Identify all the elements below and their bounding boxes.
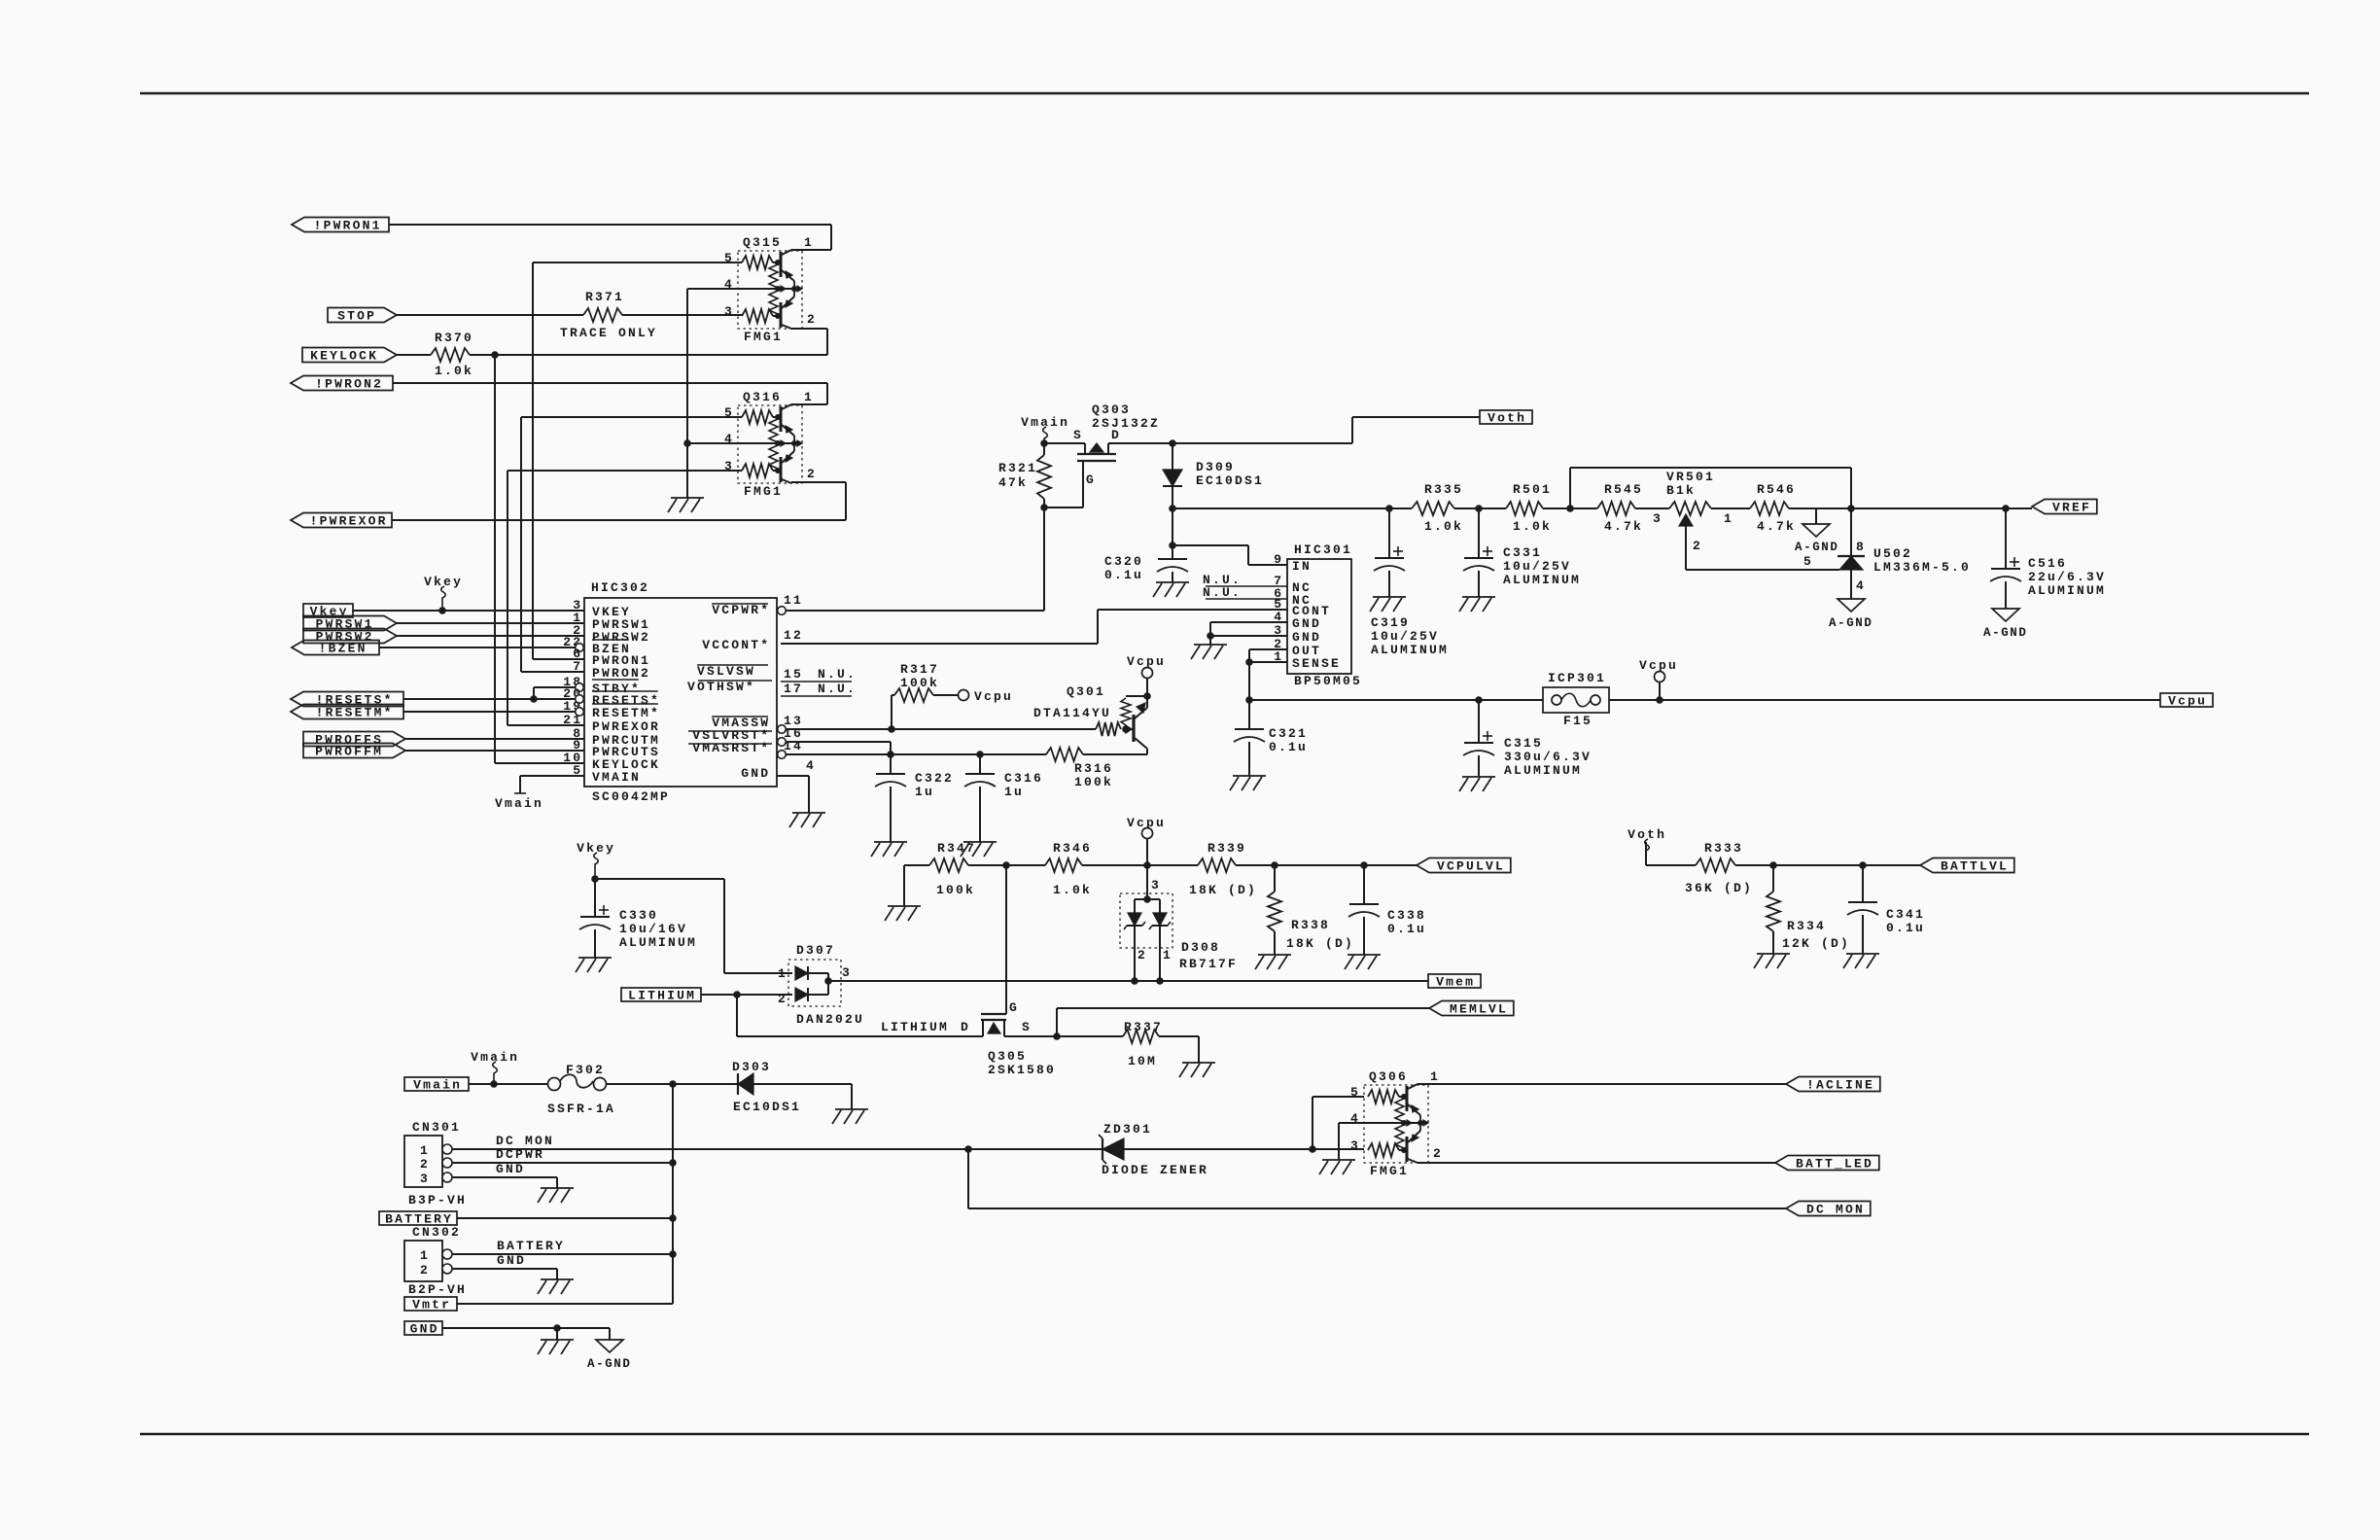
- svg-text:BATTLVL: BATTLVL: [1941, 859, 2009, 874]
- wire Vcpu rail: [1249, 696, 1543, 704]
- svg-text:PWREXOR: PWREXOR: [592, 719, 660, 734]
- diode D309 EC10DS1: [1163, 443, 1264, 508]
- power Vcpu at R346: [1127, 816, 1166, 869]
- svg-text:KEYLOCK: KEYLOCK: [310, 349, 378, 364]
- wire Q316 pin5 to PWRON2 vertical: [521, 417, 742, 672]
- net !PWRON1: [292, 218, 389, 233]
- svg-text:EC10DS1: EC10DS1: [733, 1100, 801, 1114]
- wire ZD301 to Q306 pin5: [1312, 1097, 1364, 1149]
- transistor Q303 2SJ132Z: [1073, 402, 1160, 507]
- svg-text:36K (D): 36K (D): [1685, 881, 1753, 895]
- net BATTLVL: [1920, 858, 2014, 874]
- svg-text:2SJ132Z: 2SJ132Z: [1092, 416, 1160, 431]
- ground R347: [885, 906, 921, 921]
- wire PWRSW1 to pin1: [397, 622, 584, 624]
- fuse F302 SSFR-1A: [547, 1063, 615, 1116]
- resistor R347: [904, 841, 1006, 906]
- svg-text:1u: 1u: [1004, 785, 1024, 799]
- ground C330: [576, 958, 612, 972]
- svg-text:B3P-VH: B3P-VH: [408, 1193, 467, 1207]
- wire Q315 pin4 to Q316 pin4: [687, 289, 738, 443]
- wire CN302 pin1 BATTERY: [452, 1239, 677, 1258]
- svg-text:R546: R546: [1757, 482, 1796, 497]
- svg-text:N.U.: N.U.: [818, 682, 857, 696]
- wire BATTERY to bus: [457, 1214, 677, 1222]
- wire Q303 D to D309: [1108, 439, 1176, 447]
- A-GND U502: [1829, 599, 1873, 630]
- diode D303 EC10DS1: [732, 1060, 852, 1114]
- net !RESETS*: [291, 692, 403, 708]
- A-GND C516: [1983, 609, 2028, 640]
- svg-text:STOP: STOP: [337, 309, 376, 324]
- svg-text:2SK1580: 2SK1580: [988, 1063, 1056, 1077]
- svg-text:3: 3: [1151, 878, 1161, 892]
- capacitor C316: [964, 754, 1043, 842]
- reference U502 LM336M-5.0: [1686, 508, 1971, 599]
- ground HIC301 GND: [1191, 645, 1227, 659]
- svg-text:Vcpu: Vcpu: [1127, 654, 1166, 669]
- net Vmem: [1428, 974, 1481, 990]
- svg-text:LITHIUM: LITHIUM: [628, 989, 696, 1003]
- svg-text:D309: D309: [1196, 460, 1235, 474]
- net KEYLOCK: [302, 348, 397, 364]
- svg-text:10u/16V: 10u/16V: [619, 922, 687, 936]
- label LITHIUM D: [881, 1020, 970, 1034]
- wire PWROFFM to pin9: [405, 750, 584, 752]
- wire KEYLOCK to R370: [397, 354, 431, 356]
- wire VR501 bypass top: [1570, 468, 1851, 508]
- svg-text:VOTHSW*: VOTHSW*: [687, 680, 755, 694]
- wire VMASRST* pin14: [786, 751, 1046, 758]
- svg-text:SC0042MP: SC0042MP: [592, 789, 670, 804]
- svg-text:N.U.: N.U.: [1203, 585, 1242, 600]
- capacitor C330: [579, 879, 697, 958]
- svg-text:18K (D): 18K (D): [1189, 883, 1257, 897]
- wire R333 to C341: [1773, 861, 1867, 869]
- resistor R334: [1767, 865, 1850, 954]
- svg-text:Vmtr: Vmtr: [412, 1298, 451, 1312]
- ground C321: [1230, 776, 1266, 790]
- svg-text:C341: C341: [1886, 907, 1925, 922]
- transistor Q315 (FMG1): [724, 235, 817, 344]
- wire Vmain bus vertical: [672, 1084, 674, 1304]
- svg-text:4: 4: [806, 758, 816, 773]
- wire HIC301 GND pins: [1207, 622, 1287, 645]
- svg-text:GND: GND: [496, 1162, 525, 1176]
- svg-text:3: 3: [724, 304, 734, 319]
- svg-text:S: S: [1022, 1020, 1032, 1034]
- svg-text:1.0k: 1.0k: [1513, 519, 1552, 534]
- ground GND net: [538, 1340, 574, 1354]
- svg-text:1: 1: [420, 1143, 430, 1158]
- svg-text:GND: GND: [1292, 616, 1321, 631]
- IC HIC302 left pin labels: [563, 598, 660, 785]
- svg-text:VR501: VR501: [1666, 470, 1715, 484]
- wire Q316 pin4 junction: [683, 439, 738, 498]
- ground C322: [871, 842, 907, 857]
- net PWRSW1: [303, 616, 397, 632]
- svg-text:D303: D303: [732, 1060, 771, 1074]
- net PWROFFM: [303, 744, 405, 759]
- svg-text:3: 3: [842, 965, 852, 980]
- capacitor C338: [1348, 865, 1426, 955]
- IC HIC302 right pin labels: [687, 593, 857, 781]
- svg-text:!ACLINE: !ACLINE: [1806, 1078, 1874, 1093]
- capacitor C516: [1990, 508, 2106, 609]
- wire HIC301 OUT: [1249, 648, 1287, 650]
- svg-text:F15: F15: [1563, 714, 1592, 728]
- svg-text:R371: R371: [585, 290, 624, 304]
- svg-text:0.1u: 0.1u: [1886, 921, 1925, 935]
- wire VSLVRST* pin16: [786, 742, 891, 754]
- wire Voth rail: [1172, 505, 1412, 512]
- transistor Q305 2SK1580: [981, 865, 1056, 1077]
- svg-text:C320: C320: [1104, 554, 1143, 569]
- capacitor C321: [1234, 726, 1308, 776]
- svg-text:HIC302: HIC302: [591, 580, 649, 595]
- svg-text:FMG1: FMG1: [744, 484, 783, 499]
- svg-text:FMG1: FMG1: [744, 330, 783, 344]
- node R321/gate junction: [1040, 504, 1083, 511]
- svg-text:R338: R338: [1291, 918, 1330, 932]
- net BATT_LED: [1775, 1156, 1879, 1172]
- svg-text:100k: 100k: [900, 676, 939, 690]
- ground R338: [1255, 955, 1291, 969]
- net BATTERY: [379, 1211, 457, 1227]
- ground R334: [1754, 954, 1790, 968]
- svg-text:DAN202U: DAN202U: [796, 1012, 864, 1027]
- svg-text:LM336M-5.0: LM336M-5.0: [1873, 560, 1971, 575]
- svg-text:R333: R333: [1704, 841, 1743, 856]
- svg-text:11: 11: [784, 593, 803, 608]
- wire !PWREXOR to Q316 pin2: [392, 482, 846, 520]
- ground C316: [961, 842, 997, 857]
- ground CN301: [538, 1188, 574, 1203]
- svg-text:A-GND: A-GND: [1829, 616, 1873, 630]
- wire Q315 pin5 to PWRON1 vertical: [533, 262, 742, 659]
- resistor R333: [1646, 841, 1777, 895]
- svg-text:1: 1: [778, 966, 787, 981]
- svg-text:DIODE ZENER: DIODE ZENER: [1102, 1163, 1208, 1177]
- svg-text:C319: C319: [1371, 615, 1410, 630]
- svg-text:Q305: Q305: [988, 1049, 1027, 1064]
- svg-text:4.7k: 4.7k: [1757, 519, 1796, 534]
- wire Vkey to pin3: [353, 607, 584, 614]
- svg-text:18K (D): 18K (D): [1286, 936, 1354, 951]
- wire PWRON1 vertical to pin6: [533, 658, 584, 660]
- svg-text:!PWREXOR: !PWREXOR: [310, 514, 388, 529]
- svg-text:Q316: Q316: [743, 390, 782, 404]
- svg-text:4: 4: [1856, 578, 1866, 593]
- wire !PWRON1 to Q315 pin1: [389, 225, 831, 250]
- net !PWREXOR: [291, 513, 392, 529]
- capacitor C322: [875, 754, 954, 842]
- svg-text:C338: C338: [1387, 908, 1426, 923]
- svg-text:Vcpu: Vcpu: [2168, 694, 2207, 709]
- svg-text:!BZEN: !BZEN: [319, 642, 367, 656]
- svg-text:12K (D): 12K (D): [1782, 936, 1850, 951]
- svg-text:100k: 100k: [936, 883, 975, 897]
- svg-text:47k: 47k: [998, 475, 1028, 490]
- wire CN301 pin2 DCPWR: [452, 1147, 677, 1167]
- svg-text:DC MON: DC MON: [1806, 1203, 1865, 1217]
- svg-text:10u/25V: 10u/25V: [1503, 559, 1571, 574]
- svg-text:HIC301: HIC301: [1294, 542, 1352, 557]
- svg-text:Vmain: Vmain: [495, 796, 543, 811]
- svg-text:1u: 1u: [915, 785, 934, 799]
- net PWRSW2: [303, 629, 397, 645]
- net !ACLINE: [1786, 1077, 1880, 1093]
- wire PWRON2 vertical to pin7: [521, 671, 584, 673]
- svg-text:A-GND: A-GND: [1983, 626, 2028, 640]
- stub HIC301 pin7 N.U.: [1203, 573, 1287, 587]
- net VREF: [2032, 500, 2097, 515]
- power Vcpu at R317: [959, 689, 1014, 704]
- ground C320: [1153, 582, 1189, 597]
- node DC MON junction: [964, 1145, 972, 1208]
- svg-text:VCCONT*: VCCONT*: [702, 638, 770, 652]
- net Vkey box: [303, 604, 353, 619]
- power Vcpu at rail: [1639, 658, 1678, 700]
- net Vmtr: [404, 1297, 457, 1312]
- net DC MON: [1786, 1202, 1871, 1217]
- svg-text:2: 2: [778, 992, 787, 1006]
- svg-text:Vcpu: Vcpu: [1639, 658, 1678, 673]
- svg-text:2: 2: [1137, 948, 1147, 962]
- wire !RESETM* to pin19: [403, 711, 575, 713]
- IC HIC301 pin labels: [1274, 552, 1341, 671]
- svg-text:2: 2: [1693, 539, 1702, 553]
- wire MEMLVL: [1057, 1008, 1429, 1036]
- wire STOP to R371: [397, 314, 583, 316]
- wire KEYLOCK junction down to HIC302 pin10: [494, 355, 496, 763]
- wire Q306 pin1 to !ACLINE: [1417, 1083, 1786, 1085]
- svg-text:C516: C516: [2028, 556, 2067, 571]
- wire Q316 pin2 step: [791, 481, 846, 483]
- svg-text:ALUMINUM: ALUMINUM: [1371, 643, 1449, 657]
- svg-text:R339: R339: [1207, 841, 1246, 856]
- svg-text:Vcpu: Vcpu: [974, 689, 1013, 704]
- svg-text:10u/25V: 10u/25V: [1371, 629, 1439, 644]
- ground R337: [1179, 1063, 1215, 1077]
- ground C341: [1843, 954, 1879, 968]
- node Vkey junction: [591, 875, 599, 883]
- svg-text:VCPULVL: VCPULVL: [1437, 859, 1505, 874]
- svg-text:!RESETM*: !RESETM*: [316, 706, 394, 720]
- net !PWRON2: [291, 376, 393, 392]
- svg-text:Q315: Q315: [743, 235, 782, 250]
- svg-text:FMG1: FMG1: [1370, 1164, 1409, 1178]
- svg-text:4.7k: 4.7k: [1604, 519, 1643, 534]
- capacitor C315: [1463, 700, 1592, 778]
- net !RESETM*: [291, 705, 403, 720]
- svg-text:ALUMINUM: ALUMINUM: [619, 935, 697, 950]
- svg-text:R501: R501: [1513, 482, 1552, 497]
- svg-text:VCPWR*: VCPWR*: [712, 603, 770, 617]
- node VREF rail junction: [1816, 505, 2010, 512]
- svg-text:R316: R316: [1074, 761, 1113, 776]
- svg-text:C331: C331: [1503, 545, 1542, 560]
- wire VMASSW pin13 to Q301 base: [786, 728, 1096, 730]
- power Vkey at C330: [577, 841, 615, 879]
- svg-text:1.0k: 1.0k: [435, 364, 473, 378]
- svg-text:1.0k: 1.0k: [1053, 883, 1092, 897]
- svg-text:0.1u: 0.1u: [1104, 568, 1143, 582]
- wire GND net: [442, 1324, 610, 1340]
- resistor R501: [1506, 482, 1597, 534]
- resistor R371: [560, 290, 657, 340]
- svg-text:CN301: CN301: [412, 1120, 461, 1135]
- IC HIC302 box: [584, 580, 777, 804]
- capacitor C320: [1104, 545, 1188, 582]
- svg-text:Vcpu: Vcpu: [1127, 816, 1166, 830]
- net MEMLVL: [1429, 1001, 1514, 1017]
- resistor R346: [1006, 841, 1147, 897]
- power Vmain at F302: [471, 1050, 519, 1084]
- svg-text:Q301: Q301: [1067, 684, 1105, 699]
- IC HIC301 box: [1287, 542, 1362, 688]
- svg-text:2: 2: [420, 1263, 430, 1277]
- svg-text:Vmem: Vmem: [1436, 975, 1475, 990]
- diode D307 DAN202U: [778, 943, 864, 1027]
- svg-text:DTA114YU: DTA114YU: [1033, 706, 1111, 720]
- svg-text:ALUMINUM: ALUMINUM: [1504, 763, 1582, 778]
- net PWROFFS: [303, 732, 405, 748]
- wire R370 to Q315 pin2 net: [470, 351, 827, 359]
- svg-text:0.1u: 0.1u: [1387, 922, 1426, 936]
- ground Q306 pin4: [1319, 1160, 1355, 1174]
- potentiometer VR501 B1k: [1666, 470, 1750, 570]
- svg-text:VSLVSW: VSLVSW: [697, 664, 755, 679]
- top rule: [140, 92, 2309, 95]
- svg-text:C321: C321: [1269, 726, 1308, 741]
- svg-text:!PWRON1: !PWRON1: [314, 219, 382, 233]
- wire ICP301 to Vcpu net: [1609, 696, 2160, 704]
- svg-text:2: 2: [807, 312, 817, 327]
- svg-text:BATT_LED: BATT_LED: [1796, 1157, 1873, 1172]
- svg-text:BP50M05: BP50M05: [1294, 674, 1362, 688]
- svg-text:ZD301: ZD301: [1103, 1122, 1152, 1137]
- resistor R317: [888, 662, 958, 733]
- ground HIC302 pin4: [789, 813, 825, 827]
- wire VCPWR* pin11 to Q303 gate net: [786, 507, 1044, 611]
- capacitor C341: [1847, 865, 1925, 954]
- svg-text:1: 1: [804, 235, 814, 250]
- power Vkey symbol: [424, 575, 463, 611]
- A-GND R546: [1795, 524, 1839, 554]
- wire Q315 pin1 collector step: [790, 249, 792, 251]
- transistor Q316 (FMG1): [724, 390, 817, 499]
- wire LITHIUM to Q305 drain: [737, 995, 983, 1036]
- wire CN301 pin3 GND: [452, 1162, 557, 1188]
- transistor Q301 DTA114YU: [1033, 654, 1166, 754]
- svg-text:S: S: [1073, 428, 1083, 442]
- net Vcpu box: [2160, 693, 2213, 709]
- svg-text:12: 12: [784, 628, 803, 643]
- wire LITHIUM to D307 pin2: [701, 991, 792, 998]
- svg-text:R334: R334: [1787, 919, 1826, 933]
- svg-text:9: 9: [1274, 552, 1283, 567]
- svg-text:C316: C316: [1004, 771, 1043, 786]
- wire D309 to C320: [1169, 508, 1176, 549]
- svg-text:R335: R335: [1424, 482, 1463, 497]
- svg-text:R317: R317: [900, 662, 939, 677]
- svg-text:D308: D308: [1181, 940, 1220, 955]
- svg-text:3: 3: [1350, 1138, 1360, 1153]
- svg-text:SENSE: SENSE: [1292, 656, 1341, 671]
- wire VMAIN pin5 stub: [514, 776, 584, 793]
- wire to VCPULVL: [1364, 864, 1417, 866]
- power Voth at R333: [1627, 827, 1666, 865]
- svg-text:1: 1: [1724, 511, 1733, 526]
- wire HIC301 OUT/SENSE vertical: [1245, 649, 1253, 729]
- A-GND at GND net: [587, 1340, 632, 1371]
- ground CN302: [538, 1279, 574, 1294]
- resistor R339: [1147, 841, 1278, 897]
- wire Vmem line: [828, 977, 1428, 985]
- svg-text:ALUMINUM: ALUMINUM: [2028, 583, 2106, 598]
- resistor R316: [1046, 748, 1147, 789]
- wire to HIC301 IN: [1172, 545, 1287, 565]
- diode D308 RB717F: [1120, 865, 1238, 981]
- wire Vmain to F302: [469, 1080, 547, 1088]
- svg-text:1: 1: [420, 1248, 430, 1263]
- svg-text:0.1u: 0.1u: [1269, 740, 1308, 754]
- svg-text:RESETM*: RESETM*: [592, 706, 660, 720]
- svg-text:2: 2: [420, 1157, 430, 1172]
- capacitor C331: [1463, 508, 1581, 597]
- wire Q315 pin2 to KEYLOCK: [791, 329, 827, 355]
- transistor Q306 (FMG1): [1350, 1069, 1443, 1178]
- capacitor C319: [1371, 508, 1449, 657]
- wire Q316 pin3 to PWREXOR vertical: [507, 471, 742, 725]
- bottom rule: [140, 1433, 2309, 1436]
- svg-text:G: G: [1009, 1000, 1019, 1015]
- svg-text:Vmain: Vmain: [413, 1078, 462, 1093]
- svg-text:5: 5: [1350, 1085, 1360, 1100]
- ground D303: [832, 1109, 868, 1124]
- fuse ICP301: [1543, 671, 1609, 728]
- svg-text:BATTERY: BATTERY: [497, 1239, 565, 1253]
- wire !PWRON2 to Q316 pin1: [393, 383, 827, 404]
- resistor R545: [1597, 482, 1669, 534]
- svg-text:B1k: B1k: [1666, 483, 1696, 498]
- net !BZEN: [292, 641, 379, 656]
- wire to BATTLVL: [1863, 864, 1920, 866]
- svg-text:1: 1: [804, 390, 814, 404]
- wire Q306 pin3 stub: [1312, 1148, 1364, 1150]
- resistor R546: [1750, 482, 1816, 534]
- svg-text:22u/6.3V: 22u/6.3V: [2028, 570, 2106, 584]
- svg-text:ALUMINUM: ALUMINUM: [1503, 573, 1581, 587]
- svg-text:C322: C322: [915, 771, 954, 786]
- svg-text:RB717F: RB717F: [1179, 957, 1238, 971]
- resistor R321: [998, 443, 1051, 507]
- svg-text:!PWRON2: !PWRON2: [315, 377, 383, 392]
- resistor R337: [1057, 1020, 1199, 1068]
- wire Q306 pin4 to ground: [1339, 1123, 1364, 1160]
- svg-text:R346: R346: [1053, 841, 1092, 856]
- wire Q303 D rail to Voth: [1172, 417, 1480, 443]
- node Q305 gate junction: [1002, 861, 1010, 869]
- svg-text:C330: C330: [619, 908, 658, 923]
- power Vmain label at HIC302: [495, 796, 543, 811]
- net VCPULVL: [1417, 858, 1511, 874]
- svg-text:5: 5: [1803, 554, 1813, 569]
- svg-text:2: 2: [1433, 1146, 1443, 1161]
- svg-text:Q303: Q303: [1092, 402, 1131, 417]
- wire Q305 source: [1004, 1032, 1061, 1040]
